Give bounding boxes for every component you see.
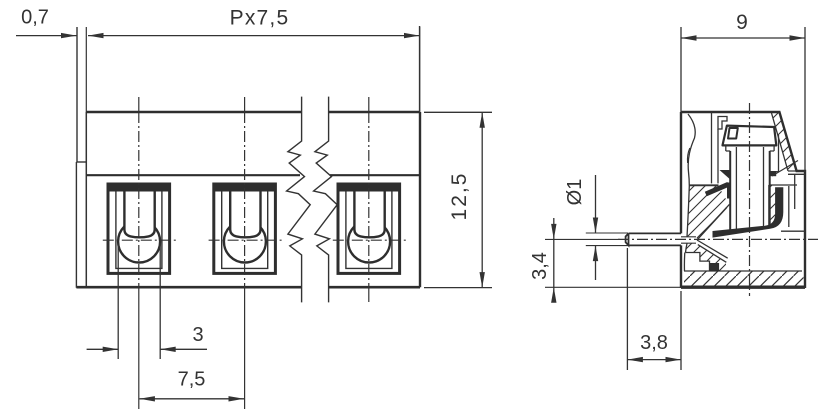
svg-text:3,4: 3,4 — [529, 252, 551, 280]
svg-text:Ø1: Ø1 — [564, 179, 586, 206]
svg-text:12,5: 12,5 — [448, 172, 471, 221]
svg-text:7,5: 7,5 — [178, 369, 206, 391]
svg-text:0,7: 0,7 — [21, 7, 49, 29]
svg-text:3: 3 — [192, 324, 203, 346]
svg-text:Px7,5: Px7,5 — [230, 7, 290, 30]
svg-text:9: 9 — [736, 11, 748, 34]
svg-text:3,8: 3,8 — [640, 332, 668, 354]
